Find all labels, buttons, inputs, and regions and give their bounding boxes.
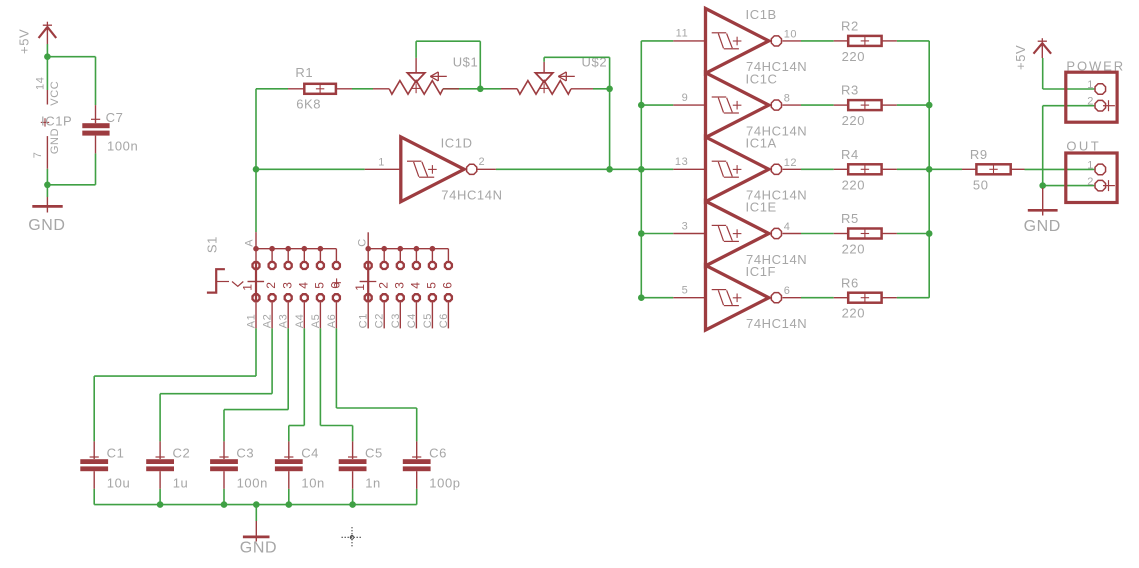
svg-text:IC1C: IC1C	[746, 71, 778, 86]
junction node input bus L3	[638, 166, 645, 173]
svg-text:100p: 100p	[429, 476, 460, 491]
wire VCC pin	[46, 57, 48, 90]
wire A3 to C3	[224, 328, 288, 441]
svg-text:S1: S1	[205, 236, 220, 253]
svg-text:100n: 100n	[107, 139, 138, 154]
resistor R4 220	[834, 147, 897, 192]
junction node input bus L2	[638, 102, 645, 109]
junction node output bus L2	[926, 102, 933, 109]
junction node (47.4,56.7)	[44, 53, 51, 60]
junction node ground bus (224)	[221, 501, 228, 508]
svg-text:IC1D: IC1D	[441, 136, 473, 151]
wire input IC1E	[641, 233, 673, 235]
svg-text:R1: R1	[295, 65, 313, 80]
svg-text:1: 1	[378, 157, 385, 169]
svg-text:C1: C1	[358, 313, 370, 328]
switch S1 C5 contact	[429, 246, 436, 329]
resistor R6 220	[834, 275, 897, 320]
junction node (480.3,88.8)	[477, 86, 484, 93]
capacitor C1 10u	[80, 441, 130, 490]
switch S1 pin label A3	[278, 314, 290, 329]
switch S1 A4 contact	[301, 246, 308, 329]
junction node output bus L3	[926, 166, 933, 173]
pin IC1E output	[782, 233, 801, 235]
wire inverter input bus	[640, 41, 642, 298]
wire POWER pin 2 to OUT pin 2	[1043, 106, 1095, 186]
wire input IC1C	[641, 104, 673, 106]
pin U$1 right	[443, 88, 459, 90]
wire R1 to U$1	[352, 88, 373, 90]
supply +5V (right)	[1013, 38, 1051, 70]
wire IC1E output	[801, 233, 834, 235]
svg-text:A2: A2	[262, 314, 274, 329]
wire +5V to POWER pin 1	[1043, 58, 1095, 89]
svg-text:2: 2	[376, 281, 390, 288]
wire IC1B output	[801, 40, 834, 42]
switch S1 common pin C	[357, 232, 369, 248]
svg-text:IC1B: IC1B	[746, 7, 777, 22]
wire ground bus	[94, 504, 417, 506]
svg-text:A5: A5	[310, 314, 322, 329]
switch S1 pin label A2	[262, 314, 274, 329]
svg-text:220: 220	[842, 113, 866, 128]
wire input IC1B	[641, 40, 673, 42]
supply +5V (left)	[17, 22, 57, 54]
switch S1 A3 contact	[285, 246, 292, 329]
svg-text:C6: C6	[438, 313, 450, 328]
wire U$2 wiper loop	[544, 57, 610, 89]
svg-text:POWER: POWER	[1066, 58, 1125, 73]
svg-text:GND: GND	[28, 217, 65, 234]
switch S1 section A position line	[248, 261, 264, 302]
svg-text:C: C	[357, 238, 369, 247]
svg-text:74HC14N: 74HC14N	[441, 188, 502, 203]
svg-text:8: 8	[784, 93, 791, 105]
svg-text:220: 220	[842, 306, 866, 321]
switch S1 A6 contact	[333, 249, 340, 329]
wire R1 left / node to S1 column	[256, 88, 288, 90]
svg-text:R2: R2	[841, 19, 859, 34]
capacitor C3 100n	[210, 441, 268, 490]
ground GND (bottom)	[240, 505, 277, 557]
svg-text:10: 10	[784, 28, 797, 40]
svg-text:74HC14N: 74HC14N	[746, 316, 807, 331]
inverter IC1C 74HC14N	[673, 71, 807, 138]
svg-text:A6: A6	[326, 314, 338, 329]
svg-text:C3: C3	[390, 313, 402, 328]
svg-text:+5V: +5V	[17, 29, 32, 54]
pin number 13 (IC1A in)	[675, 156, 688, 168]
svg-text:1: 1	[241, 283, 255, 290]
pin number 10 (IC1B out)	[784, 28, 797, 40]
wire A6 to C6	[336, 328, 416, 441]
pin IC1F output	[782, 297, 801, 299]
inverter IC1B 74HC14N	[673, 7, 807, 74]
switch S1 pin label A5	[310, 314, 322, 329]
switch S1 A position number 4	[296, 281, 310, 288]
switch S1 C position number 4	[409, 281, 423, 288]
svg-text:220: 220	[842, 242, 866, 257]
wire A1 to C1	[94, 328, 256, 441]
capacitor C2 1u	[146, 441, 190, 490]
svg-text:6: 6	[441, 281, 455, 288]
svg-text:A4: A4	[294, 314, 306, 329]
pin U$2 left	[501, 88, 517, 90]
wire vertical to IC1D output line	[609, 89, 611, 170]
pin number 4 (IC1E out)	[784, 221, 791, 233]
pin number 6 (IC1F out)	[784, 285, 791, 297]
svg-text:R9: R9	[970, 147, 988, 162]
wire R9 to OUT pin 1	[1025, 168, 1095, 170]
switch S1 A position number 6	[329, 278, 343, 288]
switch S1 A position number 1	[241, 283, 255, 290]
wire U$2 right	[593, 88, 610, 90]
svg-text:C4: C4	[406, 313, 418, 328]
svg-text:OUT: OUT	[1066, 138, 1101, 153]
wire A4 to C4	[289, 328, 305, 441]
wire C6 to ground bus	[416, 489, 418, 505]
pin number 9 (IC1C in)	[682, 92, 689, 104]
pin IC1D output	[478, 168, 496, 170]
junction node input bus L5	[638, 294, 645, 301]
switch S1 A position number 5	[313, 281, 327, 288]
capacitor C7 100n	[82, 105, 138, 154]
svg-text:3: 3	[682, 220, 689, 232]
svg-text:VCC: VCC	[49, 81, 61, 106]
pin number 2 (IC1D out)	[479, 156, 486, 168]
svg-text:R5: R5	[841, 211, 859, 226]
svg-text:220: 220	[842, 177, 866, 192]
junction node input bus L4	[638, 230, 645, 237]
svg-text:A3: A3	[278, 314, 290, 329]
switch S1 C position number 5	[425, 281, 439, 288]
mouse crosshair cursor	[342, 527, 363, 548]
switch S1 section C position line	[360, 261, 376, 302]
svg-text:4: 4	[296, 281, 310, 288]
trimmer potentiometer U$2	[501, 55, 607, 95]
svg-text:5: 5	[425, 281, 439, 288]
IC1P power part label	[41, 114, 73, 129]
junction node (609.6,88.8)	[606, 86, 613, 93]
wire IC1C output	[801, 104, 834, 106]
wire junction to C7 bottom	[47, 153, 95, 184]
resistor R3 220	[834, 83, 897, 128]
capacitor C6 100p	[403, 441, 461, 490]
wire left vertical net	[255, 89, 257, 232]
switch S1 pin label C6	[438, 313, 450, 328]
wire R6 to output bus	[897, 297, 929, 299]
junction node output bus L4	[926, 230, 933, 237]
switch S1 A5 contact	[317, 246, 324, 329]
svg-text:2: 2	[1087, 176, 1094, 188]
wire IC1D output	[496, 168, 641, 170]
svg-text:6K8: 6K8	[296, 97, 321, 112]
switch S1 C position number 1	[353, 282, 368, 291]
resistor R1 6K8	[288, 65, 352, 112]
svg-text:GND: GND	[1024, 218, 1061, 235]
inverter IC1A 74HC14N	[673, 136, 807, 203]
svg-text:+5V: +5V	[1013, 45, 1028, 70]
svg-text:IC1F: IC1F	[746, 264, 777, 279]
junction node ground bus (160.1)	[157, 501, 164, 508]
wire +5V to junction	[46, 44, 48, 57]
wire C5 to ground bus	[352, 489, 354, 505]
wire input IC1F	[641, 297, 673, 299]
trimmer potentiometer U$1	[373, 55, 478, 95]
switch S1 A1 contact	[252, 246, 259, 329]
ground GND (left)	[28, 197, 65, 234]
switch S1 C2 contact	[381, 246, 388, 329]
IC1P GND pin 7	[32, 128, 61, 169]
switch S1 pin label C3	[390, 313, 402, 328]
junction node ground bus (352.6)	[349, 501, 356, 508]
switch S1 pin label C1	[358, 313, 370, 328]
inverter IC1E 74HC14N	[673, 200, 807, 267]
switch S1 pin label C5	[422, 313, 434, 328]
switch S1 C3 contact	[397, 246, 404, 329]
svg-text:1: 1	[353, 283, 367, 290]
switch S1 pin label C2	[374, 313, 386, 328]
junction node ground bus (256.3)	[253, 501, 260, 508]
wire junction to C7 top	[47, 57, 95, 105]
svg-text:C4: C4	[301, 446, 319, 461]
pin IC1C output	[782, 104, 801, 106]
svg-text:1: 1	[1087, 160, 1094, 172]
switch S1 pin label A4	[294, 314, 306, 329]
switch S1 A position number 2	[264, 281, 278, 288]
svg-text:A: A	[243, 239, 255, 247]
svg-text:4: 4	[409, 281, 423, 288]
svg-text:2: 2	[1087, 96, 1094, 108]
wire U$1 wiper loop	[416, 41, 480, 89]
wire output bus	[928, 41, 930, 298]
svg-text:11: 11	[676, 28, 689, 40]
svg-text:GND: GND	[49, 128, 61, 154]
resistor R9 50	[962, 147, 1025, 192]
svg-text:5: 5	[313, 281, 327, 288]
junction node (609.6,169.3)	[606, 166, 613, 173]
switch S1 C6 contact	[445, 249, 452, 329]
svg-text:9: 9	[682, 92, 689, 104]
wire IC1F output	[801, 297, 834, 299]
svg-text:3: 3	[392, 281, 406, 288]
switch S1 C4 contact	[413, 246, 420, 329]
pin IC1A output	[782, 168, 801, 170]
svg-text:13: 13	[675, 156, 688, 168]
pin number 5 (IC1F in)	[682, 285, 689, 297]
switch S1 C1 contact	[365, 246, 372, 329]
svg-text:220: 220	[842, 49, 866, 64]
wire OUT pin 2	[1043, 185, 1095, 187]
switch S1 section C bus	[368, 248, 448, 250]
svg-text:6: 6	[784, 285, 791, 297]
svg-text:C5: C5	[422, 313, 434, 328]
svg-text:R6: R6	[841, 275, 859, 290]
switch S1 pin label A1	[246, 314, 258, 329]
switch S1 pin label A6	[326, 314, 338, 329]
svg-text:5: 5	[682, 285, 689, 297]
resistor R5 220	[834, 211, 897, 256]
svg-text:10n: 10n	[301, 476, 325, 491]
svg-text:IC1E: IC1E	[746, 200, 777, 215]
wire IC1D input	[256, 168, 365, 170]
switch S1 pin label C4	[406, 313, 418, 328]
wire C1 to ground bus	[93, 489, 95, 505]
svg-text:12: 12	[784, 157, 797, 169]
pin number 12 (IC1A out)	[784, 157, 797, 169]
svg-text:C2: C2	[173, 446, 191, 461]
svg-text:C3: C3	[236, 446, 254, 461]
wire C3 to ground bus	[223, 489, 225, 505]
wire R3 to output bus	[897, 104, 929, 106]
wire A5 to C5	[320, 328, 352, 441]
junction node (256,169.3)	[253, 166, 260, 173]
resistor R2 220	[834, 19, 897, 64]
IC1P VCC pin 14	[34, 77, 61, 106]
svg-text:IC1P: IC1P	[41, 114, 72, 129]
wire C4 to ground bus	[288, 489, 290, 505]
svg-text:A1: A1	[246, 314, 258, 329]
switch S1 common pin A	[243, 232, 256, 249]
svg-text:1n: 1n	[365, 476, 381, 491]
svg-text:50: 50	[973, 177, 989, 192]
wire U$1/U$2 link	[480, 88, 501, 90]
op-amp IC1D (74HC14N schmitt inverter)	[365, 136, 503, 203]
wire A2 to C2	[160, 328, 272, 441]
svg-text:U$1: U$1	[453, 55, 479, 70]
capacitor C5 1n	[339, 441, 383, 490]
ground GND (right)	[1024, 188, 1061, 235]
wire input IC1A	[641, 168, 673, 170]
svg-text:4: 4	[784, 221, 791, 233]
svg-text:GND: GND	[240, 540, 277, 557]
svg-text:100n: 100n	[237, 476, 268, 491]
svg-text:2: 2	[264, 281, 278, 288]
switch S1 actuator	[207, 269, 264, 292]
svg-text:R4: R4	[841, 147, 859, 162]
svg-text:C7: C7	[106, 110, 124, 125]
svg-text:3: 3	[280, 281, 294, 288]
svg-text:14: 14	[34, 77, 46, 90]
svg-text:1u: 1u	[173, 476, 189, 491]
connector POWER	[1066, 58, 1125, 122]
svg-text:C5: C5	[365, 446, 383, 461]
wire C2 to ground bus	[159, 489, 161, 505]
svg-text:R3: R3	[841, 83, 859, 98]
switch S1 section A bus	[256, 248, 336, 250]
wire IC1A output	[801, 168, 834, 170]
connector OUT	[1066, 138, 1117, 202]
wire R4 to output bus	[897, 168, 929, 170]
wire GND pin to junction	[46, 169, 48, 185]
capacitor C4 10n	[275, 441, 325, 490]
junction node (1042.7,185.6)	[1039, 182, 1046, 189]
switch S1 C position number 2	[376, 281, 390, 288]
wire R5 to output bus	[897, 233, 929, 235]
pin number 3 (IC1E in)	[682, 220, 689, 232]
switch S1 A position number 3	[280, 281, 294, 288]
pin number 8 (IC1C out)	[784, 93, 791, 105]
svg-text:2: 2	[479, 156, 486, 168]
pin number 11 (IC1B in)	[676, 28, 689, 40]
svg-text:1: 1	[1087, 79, 1094, 91]
junction node ground bus (288.8)	[286, 501, 293, 508]
svg-text:10u: 10u	[107, 476, 131, 491]
svg-text:7: 7	[32, 152, 44, 159]
svg-text:C1: C1	[107, 446, 125, 461]
pin IC1B output	[782, 40, 801, 42]
inverter IC1F 74HC14N	[673, 264, 807, 331]
switch S1 label	[205, 236, 220, 253]
svg-text:C2: C2	[374, 313, 386, 328]
wire bus to R9	[929, 168, 962, 170]
junction node (47.4,184.8)	[44, 182, 51, 189]
pin number 1 (IC1D in)	[378, 157, 385, 169]
switch S1 C position number 6	[441, 281, 455, 288]
switch S1 C position number 3	[392, 281, 406, 288]
svg-text:C6: C6	[429, 446, 447, 461]
wire R2 to output bus	[897, 40, 929, 42]
wire U$1 right	[443, 88, 480, 90]
svg-text:IC1A: IC1A	[746, 136, 777, 151]
wire junction to ground	[46, 185, 48, 197]
switch S1 A2 contact	[269, 246, 276, 329]
